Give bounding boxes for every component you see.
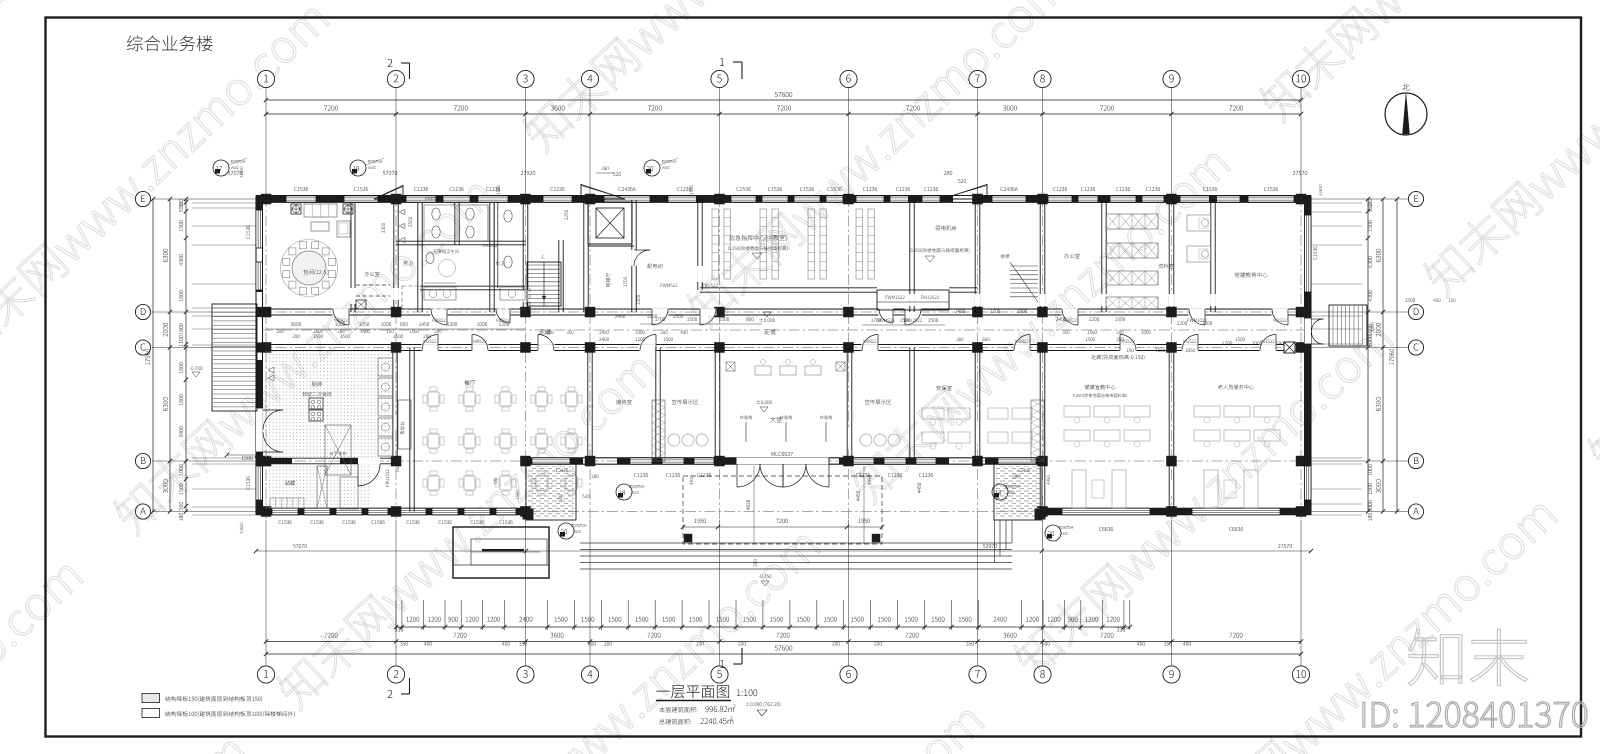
north ramp near grid2 [374,186,403,200]
north ramp near grid4 [581,185,625,200]
corridor wall row D [262,308,1304,310]
kitchen room [312,381,322,386]
stair 1 [527,262,561,306]
womens toilet [495,261,504,266]
bottom detail dimension chain row [396,626,1130,628]
right overall 17960 [1396,199,1398,512]
dashed service zone [402,286,530,309]
entrance steps [580,542,1012,544]
kitchen B wall door [358,458,380,465]
legend [142,694,160,703]
sofas room 9-10 [1204,470,1218,508]
serving counter [398,400,411,449]
toilet labels [425,197,439,200]
southwest stair structure [453,527,549,578]
storage room [285,480,295,485]
section mark 2 top [388,59,393,67]
dim extension lines right [1311,202,1362,204]
lobby [770,417,782,423]
toilet partitions [396,240,526,242]
archive racks 资料室 [1106,214,1158,229]
kitchen B wall [262,457,395,459]
west ramp [212,304,257,411]
toilet sink counters [424,287,456,300]
columns row B [261,456,272,467]
kitchen counter and dumbwaiter [325,425,351,475]
main entrance door MLC6637 [736,458,829,465]
small rotated dims near walls [396,464,399,473]
desk room 9 [1187,215,1211,231]
corridor wall row C [262,344,1304,346]
health education center [1085,385,1116,390]
toilet stalls [424,205,455,241]
section mark 1 bottom [720,660,724,668]
interior door gaps on vertical walls [393,288,399,300]
south small dims left porch [591,474,598,478]
kitchen stoves [309,398,323,409]
corridor labels [539,329,550,334]
bottom mid dimension chain [266,641,1301,643]
vertical dims near grid 9 10 south [917,483,921,493]
columns row A [261,506,272,517]
vest walls [634,249,650,251]
monitor room desks [988,408,1008,419]
lobby counter [755,366,771,375]
south wall row B center [526,457,1043,459]
corner 42620 dims [240,167,243,178]
classroom seats [712,209,719,279]
dim extension lines left [192,202,256,204]
senior service center [1218,385,1254,390]
kitchen floor hatch [264,351,393,457]
corridor center dashdot [262,329,1304,331]
section mark 1 top [720,58,724,66]
lobby benches [740,415,752,419]
top dimension chain [266,113,1301,115]
stair 2 [1010,265,1038,267]
interior walls bottom band [392,348,394,462]
mens toilet [403,261,412,265]
bottom sub dimension 57070/52970/27570 [256,550,526,552]
north ramp near grid7 [942,185,987,200]
grid bubbles top [257,70,274,87]
interior walls top band [393,199,395,312]
elevator lobby [606,273,611,287]
level note 762.20 [746,702,781,707]
north arrow [1385,93,1427,135]
right dimension chains [1382,199,1384,512]
classroom south wall [700,287,877,289]
kitchen equipment east wall [378,358,393,376]
south wall row A right wing [1043,507,1312,509]
security room [936,385,951,390]
top band inner dims [381,223,385,233]
detail marker bubbles top [213,160,229,176]
detail marker bubbles bottom [616,484,632,500]
sofa top-left room [304,204,337,217]
east entrance doors [1305,318,1312,344]
exhibition room right [865,399,891,404]
party education room [1235,272,1268,277]
right porch hatch [996,466,1040,518]
title 综合业务楼 [127,35,213,51]
weak current room [936,225,957,230]
classroom labels [729,235,786,241]
kitchen west doors [256,408,263,452]
sofas room 8-9 [1072,470,1086,508]
doors along corridor wall C [422,344,439,351]
top small dims near wall [228,171,242,175]
columns row E [261,194,272,205]
left dimension chains [169,199,171,512]
partition wall x353 [350,203,352,312]
dining room [464,380,475,385]
porch corner columns [523,509,534,520]
plan title 一层平面图 [656,685,729,698]
columns row D [261,307,272,318]
doors along corridor wall D [333,309,350,316]
round table room 包间 [281,240,338,297]
east exterior wall [1304,196,1306,515]
znzmo id text [1363,702,1587,728]
ladder feature wall left [652,400,665,461]
section mark 2 bottom [388,690,393,698]
extra corridor micro dims [277,330,284,333]
office room small [364,272,379,277]
west exterior wall [255,196,257,515]
top overall dimension 57600 [266,99,1301,101]
entrance canopy dashed [683,476,882,544]
area notes [659,707,697,713]
grid bubbles bottom [257,666,274,683]
reception room [616,399,632,404]
column grid lines [265,88,267,196]
znzmo logo 知末 [1409,629,1528,685]
columns row C [261,342,272,353]
left porch hatch [528,466,574,518]
column X-box at C near east [1284,342,1295,353]
exhibition room left [672,399,698,404]
bottom overall dimension 57600 [266,653,1301,655]
row grid lines [152,198,256,200]
corridor dims row D [291,322,301,326]
south wall row A left wing [256,507,526,509]
canopy dims [683,526,882,528]
east stair [1329,305,1367,346]
elevator [588,202,632,244]
left overall 17960 [152,199,154,512]
row bubbles left and right [135,191,150,206]
accessible toilet [433,249,459,253]
north exterior wall row E [256,195,1311,197]
corridor dims row C [292,334,299,338]
office room 8-9 [1064,253,1080,258]
ladder feature wall right [1031,400,1044,461]
level -0.750 [759,574,772,578]
